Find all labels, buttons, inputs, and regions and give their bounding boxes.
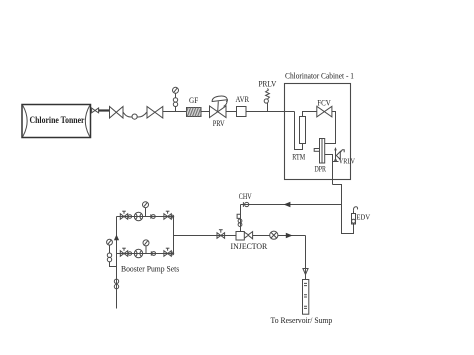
cabinet inlet downcomer [295, 112, 303, 150]
pump 2 outlet valve [164, 248, 174, 256]
isolation valve V1 [110, 107, 124, 119]
svg-text:DPR: DPR [314, 164, 326, 173]
differential pressure regulator DPR [314, 139, 326, 174]
booster pump suction header [114, 217, 119, 309]
svg-text:RTM: RTM [292, 152, 305, 161]
pump 1 outlet valve [164, 211, 174, 219]
booster pump 2 [134, 249, 142, 257]
vent line to EDV [333, 185, 354, 234]
check valve CHV [239, 192, 252, 207]
injector body [231, 232, 268, 252]
vacuum line from EDV junction to CHV [241, 202, 342, 207]
pipe RTM to FCV [303, 112, 317, 117]
solution downpipe to diffuser [303, 236, 308, 280]
gas filter GF [187, 96, 202, 116]
solution line with flow meter [253, 231, 306, 239]
svg-text:GF: GF [189, 96, 199, 105]
pump train 1 piping [117, 216, 174, 218]
pump train 2 piping [117, 253, 174, 255]
svg-text:Chlorinator Cabinet - 1: Chlorinator Cabinet - 1 [285, 72, 354, 81]
pipe FCV to DPR [325, 112, 336, 144]
svg-text:PRV: PRV [213, 119, 225, 128]
pipe AVR to cabinet [246, 111, 295, 113]
pressure relief valve PRLV [259, 79, 277, 111]
svg-text:VRLV: VRLV [339, 156, 356, 165]
flow control valve FCV [317, 98, 332, 117]
diffuser [271, 280, 333, 326]
suction line sight glass [114, 279, 118, 289]
pump 2 inlet valve [120, 248, 131, 256]
svg-text:CHV: CHV [239, 192, 252, 201]
pump 1 discharge gauge [143, 202, 149, 217]
isolation valve V2 [147, 107, 163, 119]
pump 1 check valve [151, 214, 155, 218]
pressure reducing valve PRV [210, 96, 228, 128]
rotameter RTM [292, 117, 305, 162]
flexible connection loop [123, 112, 147, 119]
vacuum relief valve VRLV [333, 147, 356, 165]
pump discharge header [173, 217, 175, 254]
svg-text:PRLV: PRLV [259, 79, 277, 88]
svg-text:INJECTOR: INJECTOR [231, 242, 268, 251]
svg-text:AVR: AVR [236, 95, 250, 104]
svg-text:FCV: FCV [317, 98, 331, 107]
water supply pipe and valve at injector [174, 230, 237, 239]
svg-text:To Reservoir/ Sump: To Reservoir/ Sump [271, 316, 333, 325]
pump 2 check valve [151, 251, 155, 255]
suction pressure gauge branch [107, 239, 117, 266]
booster pump 1 [134, 212, 142, 220]
chlorinator cabinet enclosure [285, 72, 355, 180]
svg-text:Booster Pump Sets: Booster Pump Sets [121, 264, 179, 273]
pipe GF to PRV [201, 111, 210, 113]
svg-text:Chlorine Tonner: Chlorine Tonner [30, 116, 85, 126]
emergency drain valve EDV [352, 207, 371, 224]
automatic vacuum regulator AVR [236, 95, 250, 116]
pump 1 inlet valve [120, 211, 131, 219]
tonner outlet union [92, 108, 110, 113]
pipe PRV to AVR [226, 111, 237, 113]
pump 2 discharge gauge [143, 240, 149, 254]
DPR outlet pipe [325, 155, 333, 185]
svg-text:EDV: EDV [356, 213, 370, 222]
vacuum drop line to injector [237, 205, 242, 232]
chlorine tonner vessel [22, 105, 91, 138]
gas pipe to filter [163, 111, 186, 113]
pressure gauge assembly on gas line [173, 87, 179, 111]
